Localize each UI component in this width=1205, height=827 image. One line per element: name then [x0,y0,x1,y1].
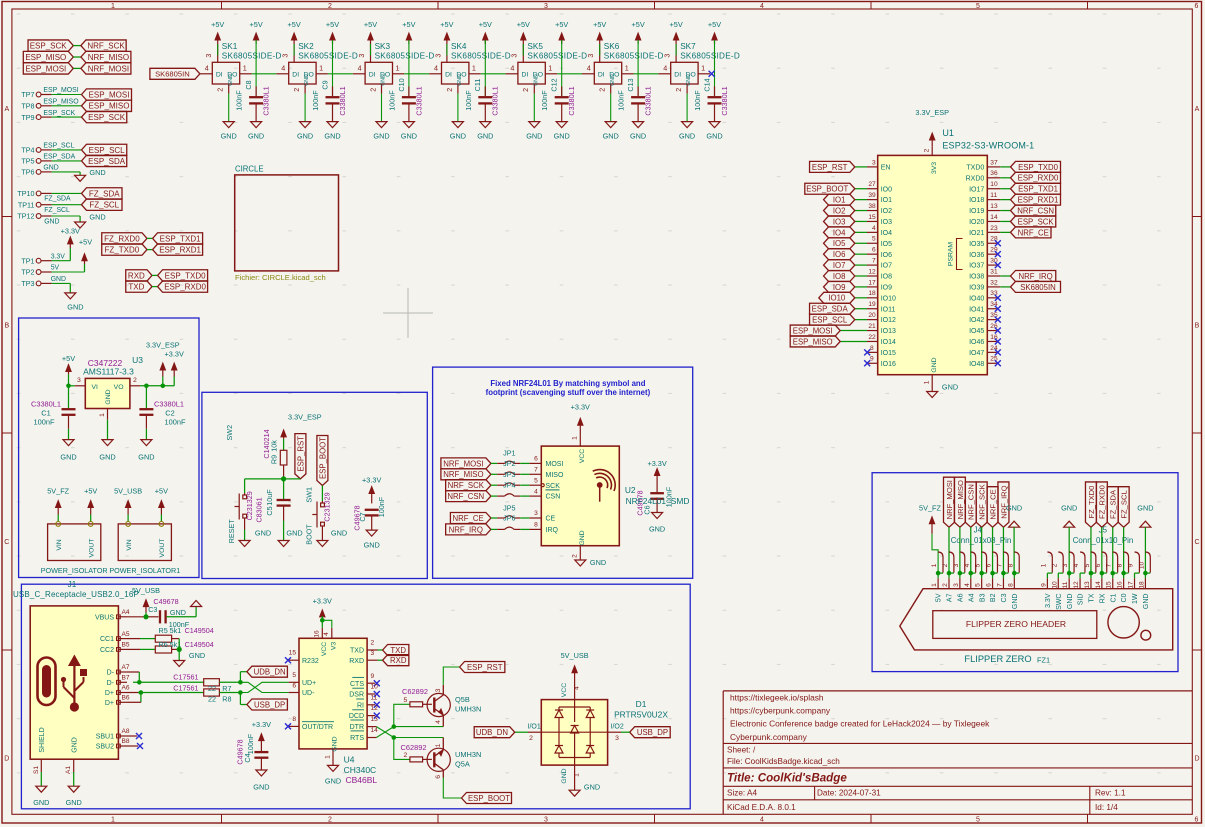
jumper on MOSI line [491,462,497,464]
svg-text:2: 2 [924,148,931,152]
svg-text:VBUS: VBUS [95,614,114,621]
svg-text:NRF_MISO: NRF_MISO [88,53,129,62]
global label FZ_TXD0 [102,244,147,255]
power 3.3V_ESP at U3 [162,367,164,377]
crossover DTR RTS [376,727,393,738]
svg-text:C3380L1: C3380L1 [720,86,729,115]
svg-text:CIRCLE: CIRCLE [235,164,264,173]
svg-text:4: 4 [534,488,538,495]
svg-text:GND: GND [297,132,313,141]
svg-text:GND: GND [89,168,105,177]
svg-text:9: 9 [1128,563,1135,567]
pin 3 VI of U3 [75,385,86,387]
pin 7 IO7 of U1 [867,264,878,266]
svg-text:A7: A7 [122,664,130,671]
global label IO6 [824,249,855,260]
svg-text:IO48: IO48 [969,361,984,368]
svg-text:IO4: IO4 [881,230,892,237]
pin VIN of POWER_ISOLATOR [57,515,59,522]
svg-text:I/O1: I/O1 [528,724,541,731]
pin 19 IO11 of U1 [867,308,878,310]
svg-text:14: 14 [371,727,379,734]
no-connect IO40 [995,295,1001,301]
ground below U4 [328,765,339,771]
svg-text:3: 3 [953,583,960,587]
svg-text:3.3V_ESP: 3.3V_ESP [288,413,322,422]
svg-text:2: 2 [371,640,375,647]
svg-text:39: 39 [868,192,876,199]
wire NRF_MOSI to J4 pin 2 [948,527,950,571]
svg-text:IO17: IO17 [969,186,984,193]
wire SK5 DO to SK6 DI [557,73,582,75]
wire GND to J5 pin 10 [1144,527,1146,571]
svg-text:IO2: IO2 [833,206,846,215]
svg-text:NRF_SCK: NRF_SCK [87,42,125,51]
GND below SK6 [610,94,612,122]
global label ESP_MISO [82,100,132,111]
branch to USB_DP label [239,693,241,705]
svg-text:22: 22 [868,334,876,341]
wire +5V to C11 [484,40,486,96]
svg-text:ESP_SDA: ESP_SDA [812,305,849,314]
svg-text:3: 3 [544,816,548,823]
svg-text:Date: 2024-07-31: Date: 2024-07-31 [817,789,881,798]
pin 8 of J5 [1124,552,1129,573]
svg-text:9: 9 [371,673,375,680]
pin 18 IO10 of U1 [867,297,878,299]
svg-text:4: 4 [587,64,591,73]
wire IO2 to IO2 [855,210,867,212]
svg-text:JP6: JP6 [503,514,515,523]
no-connect IO15 [864,349,870,355]
capacitor C5 10uF [283,479,285,499]
GND below SK5 [533,94,535,122]
wire FZ_TXD0 to J5 pin 5 [1090,527,1092,571]
svg-text:4: 4 [510,64,514,73]
svg-text:38: 38 [868,203,876,210]
svg-text:IO38: IO38 [969,274,984,281]
pin 3 of FZ1 [959,573,961,578]
module POWER_ISOLATOR1 [118,524,171,561]
wire FZ_TXD0 to ESP_RXD1 [147,249,153,251]
svg-text:+3.3V: +3.3V [362,476,381,485]
pin 6 of FZ1 [992,573,994,578]
svg-text:C13: C13 [626,78,635,91]
wire IO4 to IO4 [855,231,867,233]
svg-text:4: 4 [964,563,971,567]
svg-text:ESP_MISO: ESP_MISO [793,337,833,346]
global label ESP_TXD1 [1011,183,1061,194]
svg-text:5V: 5V [936,593,943,602]
svg-text:B3: B3 [979,593,986,602]
pin 9 of FZ1 [1046,573,1048,578]
svg-text:UMH3N: UMH3N [455,750,481,759]
svg-text:R8: R8 [222,695,231,704]
svg-text:SK4: SK4 [451,42,467,51]
global label IO1 [824,194,855,205]
svg-text:13: 13 [990,203,998,210]
svg-text:ESP_MISO: ESP_MISO [43,99,79,106]
svg-text:FZ_RXD0: FZ_RXD0 [1098,485,1107,519]
global label ESP_SDA [810,303,855,314]
pin 13 IO19 of U1 [987,210,1000,212]
svg-text:+5V: +5V [211,20,224,29]
resistor R6 5k1 [127,648,140,650]
svg-text:1: 1 [548,64,552,73]
wire D+ to R8 [141,692,204,694]
svg-text:21: 21 [868,323,876,330]
svg-text:D: D [4,756,9,763]
svg-text:2: 2 [598,88,607,92]
pin 8 IO15 of U1 [868,351,878,353]
global label NRF_MISO at J4 [954,477,965,527]
svg-text:Rev: 1.1: Rev: 1.1 [1095,789,1126,798]
svg-text:GND: GND [304,74,310,86]
svg-text:8: 8 [870,345,874,352]
svg-text:17: 17 [868,279,876,286]
wire R7 to crossover [219,681,240,683]
svg-text:VI: VI [92,384,99,391]
wire TXD0 to ESP_TXD0 [1000,166,1010,168]
global label ESP_BOOT [805,183,855,194]
wire TXD to ESP_RXD0 [152,286,158,288]
svg-text:GND: GND [228,74,234,86]
svg-text:19: 19 [868,301,876,308]
svg-text:100nF: 100nF [165,417,186,426]
+5V power for SK6 [599,37,601,56]
pin 25 IO48 of U1 [987,362,997,364]
svg-text:J5: J5 [1099,526,1108,535]
wire FZ_RXD0 to ESP_TXD1 [147,237,153,239]
wire FZ_RXD0 to J5 pin 6 [1101,527,1103,571]
svg-text:2: 2 [521,88,530,92]
pin 3 CE of U2 [529,517,541,519]
power +5V at U3 [68,369,70,375]
pin 1 VCC of U2 [579,440,581,446]
svg-text:SK6805IN: SK6805IN [155,70,190,79]
svg-text:R5 5k1: R5 5k1 [159,626,182,635]
svg-text:4: 4 [872,225,876,232]
svg-text:1: 1 [1040,563,1047,567]
pin 3 of J4 [960,552,965,573]
svg-text:A6: A6 [957,593,964,602]
svg-text:C149504: C149504 [185,626,214,635]
svg-text:D1: D1 [636,699,647,709]
pin 4 of FZ1 [970,573,972,578]
diodes inside D1 [574,700,576,722]
global label RXD [126,270,152,281]
no-connect IO45 [995,328,1001,334]
svg-text:GND: GND [401,132,417,141]
wire UDB_DN to D1 [515,731,528,733]
svg-text:TXD0: TXD0 [966,165,984,172]
svg-text:CC2: CC2 [100,647,114,654]
svg-text:3: 3 [435,688,442,692]
svg-text:7: 7 [996,583,1003,587]
svg-text:3: 3 [77,377,81,384]
svg-text:2: 2 [1051,563,1058,567]
svg-text:GND: GND [477,132,493,141]
svg-text:FZ_TXD0: FZ_TXD0 [105,246,140,255]
svg-text:CH340C: CH340C [344,765,377,775]
wire R8 to crossover [219,692,240,694]
pin 3 I/O2 of D1 [608,731,621,733]
global label IO9 [824,281,855,292]
svg-text:R7: R7 [222,684,231,693]
pin 20 IO12 of U1 [867,319,878,321]
no-connect IO37 [995,262,1001,268]
svg-text:3: 3 [586,54,595,58]
pin VOUT of POWER_ISOLATOR1 [160,515,162,522]
svg-text:ESP_RXD0: ESP_RXD0 [164,283,206,292]
svg-text:IO20: IO20 [969,219,984,226]
flipper section box [872,473,1178,672]
svg-text:IO10: IO10 [881,295,896,302]
svg-text:FZ_SCL: FZ_SCL [89,201,119,210]
svg-text:7: 7 [872,257,876,264]
capacitor C12 100nF [561,86,563,96]
pin 12 IO8 of U1 [867,275,878,277]
wire ESP_BOOT to IO0 [855,188,867,190]
svg-text:TP2: TP2 [21,268,34,277]
wire 5V_FZ to J4 pin 1 [932,534,938,571]
svg-text:DTR: DTR [350,724,364,731]
pin B7 D- of J1 [118,681,127,683]
svg-text:13: 13 [1084,581,1091,589]
svg-text:11: 11 [371,694,378,701]
pin 2 of J5 [1058,552,1063,573]
GND below SK1 [228,94,230,122]
+5V power for SK7 [675,37,677,56]
no-connect IO46 [995,338,1001,344]
resistor R8 22 [204,689,220,696]
svg-text:+3.3V: +3.3V [571,403,590,412]
svg-text:ESP_BOOT: ESP_BOOT [468,794,510,803]
pin 1 GND of U1 [931,375,933,392]
pin 1 of J5 [1047,552,1052,573]
svg-text:Fixed NRF24L01 By matching sym: Fixed NRF24L01 By matching symbol and [490,379,645,388]
pin 18 of FZ1 [1144,573,1146,578]
svg-text:13: 13 [371,716,379,723]
svg-text:C3: C3 [1001,593,1008,602]
svg-text:GND: GND [331,529,347,538]
svg-text:C3380L1: C3380L1 [154,400,184,409]
svg-text:Id: 1/4: Id: 1/4 [1095,803,1118,812]
no-connect IO47 [995,349,1001,355]
global label NRF_SCK [81,40,126,51]
svg-text:+5V: +5V [326,20,339,29]
wire TP1 to +3.3V [69,248,71,261]
svg-text:GND: GND [60,453,76,462]
pin 9 of J5 [1135,552,1140,573]
svg-text:IO11: IO11 [881,306,896,313]
svg-text:ESP_SCK: ESP_SCK [43,110,75,117]
wire RTS to Q5B emitter [394,726,444,728]
svg-text:10uF: 10uF [265,489,274,506]
svg-text:C3: C3 [148,605,157,614]
svg-text:3: 3 [510,54,519,58]
ground below C1 [63,440,74,446]
wire +5V to VI [68,374,70,385]
capacitor C2 100nF [145,386,147,409]
pin A8 SBU1 of J1 [118,735,127,737]
svg-text:GND: GND [286,529,302,538]
svg-text:USB_DP: USB_DP [637,728,668,737]
svg-text:C149504: C149504 [185,640,214,649]
+5V power for C9 [332,37,334,44]
+5V power for SK1 [217,37,219,56]
pin 7 of FZ1 [1002,573,1004,578]
wire GND to J5 pin 3 [1068,527,1070,571]
global label USB_DP at D1 [630,727,671,738]
global label NRF_CSN at J4 [965,482,976,527]
wire RXD to ESP_TXD0 [152,274,158,276]
pin VOUT of POWER_ISOLATOR [90,515,92,522]
svg-text:B7: B7 [122,675,130,682]
wire SW2 to GND [244,518,246,530]
svg-text:DI: DI [674,71,681,78]
wire NRF_SCK to J4 pin 5 [981,527,983,571]
svg-text:PSRAM: PSRAM [948,242,955,267]
svg-text:5: 5 [976,816,980,823]
svg-text:C7: C7 [358,512,367,521]
svg-text:4: 4 [323,632,330,636]
svg-text:IO1: IO1 [881,197,892,204]
svg-text:GND: GND [66,798,82,807]
wire Q5B collector to ESP_RST [443,667,459,685]
svg-text:2: 2 [216,88,225,92]
wire IO21 to NRF_CE [1000,231,1010,233]
pin 16 IO46 of U1 [987,340,997,342]
svg-text:6: 6 [1195,3,1199,10]
+5V power for C14 [714,37,716,44]
LED SK7 SK6805SIDE-D [671,62,698,84]
ground at TP12 [75,222,86,228]
svg-text:D-: D- [107,680,115,687]
svg-text:GND: GND [324,132,340,141]
svg-text:Electronic Conference badge cr: Electronic Conference badge created for … [730,719,990,729]
svg-text:Title: CoolKid'sBadge: Title: CoolKid'sBadge [727,771,847,784]
pin 10 of FZ1 [1057,573,1059,578]
pin 30 IO37 of U1 [987,264,997,266]
flipper big circle [1108,607,1139,638]
svg-text:A8: A8 [122,728,130,735]
global label FZ_SCL [82,199,123,210]
svg-text:SK5: SK5 [527,42,543,51]
pin 28 IO35 of U1 [987,242,997,244]
svg-text:C3380L1: C3380L1 [262,86,271,115]
svg-text:+5V: +5V [155,487,168,496]
svg-text:MISO: MISO [546,472,564,479]
svg-text:SK2: SK2 [298,42,314,51]
pin 17 IO9 of U1 [867,286,878,288]
pin 36 RXD0 of U1 [987,177,1000,179]
pin 2 GND of U2 [579,546,581,560]
svg-text:11: 11 [1062,581,1069,588]
svg-text:B5: B5 [122,642,130,649]
svg-text:GND: GND [561,768,568,783]
svg-text:U2: U2 [625,485,636,495]
svg-text:5: 5 [1084,563,1091,567]
global label ESP_BOOT vertical [317,436,328,486]
svg-text:ESP_RST: ESP_RST [296,436,305,472]
svg-text:TP12: TP12 [17,212,34,221]
svg-text:SK3: SK3 [375,42,391,51]
svg-text:SK6805SIDE-D: SK6805SIDE-D [298,51,358,60]
pin 7 MISO of U2 [529,473,541,475]
global label ESP_SCK [82,111,127,122]
svg-text:File: CoolKidsBadge.kicad_sch: File: CoolKidsBadge.kicad_sch [727,757,840,766]
pin 14 RTS of U4 [367,737,376,739]
svg-text:USB_DP: USB_DP [254,700,285,709]
wire +5V to C13 [637,40,639,96]
pin 8 of FZ1 [1013,573,1015,578]
svg-text:C231329: C231329 [245,491,254,520]
svg-text:8: 8 [1007,583,1014,587]
GND below SK4 [457,94,459,122]
svg-text:IO47: IO47 [969,350,984,357]
wire FZ_SDA to J5 pin 7 [1112,527,1114,571]
wire +5V to C10 [408,40,410,96]
svg-text:JP2: JP2 [503,459,515,468]
global label FZ_SDA [82,188,123,199]
global label IO2 [824,205,855,216]
svg-text:GND: GND [554,132,570,141]
svg-text:9: 9 [870,356,874,363]
svg-text:Cyberpunk.company: Cyberpunk.company [730,732,808,742]
svg-text:5: 5 [975,583,982,587]
svg-text:10k: 10k [270,440,279,452]
global label IO3 [824,216,855,227]
svg-text:ESP_MOSI: ESP_MOSI [89,90,130,99]
svg-text:ESP_TXD0: ESP_TXD0 [165,271,206,280]
wire RTS node to Q5A base resistor [394,738,410,760]
power 3.3V_ESP at U1 [931,137,933,146]
global label FZ_SDA at J5 [1107,487,1118,528]
pin VIN of POWER_ISOLATOR1 [127,515,129,522]
svg-text:GND: GND [51,276,66,283]
wire CC node to GND [178,639,180,661]
svg-text:GND: GND [942,382,958,391]
svg-text:NRF_MOSI: NRF_MOSI [88,64,129,73]
global label SK6805IN [150,68,200,79]
svg-text:ESP_RXD0: ESP_RXD0 [1018,174,1059,183]
svg-text:6: 6 [986,583,993,587]
svg-text:3.3V_ESP: 3.3V_ESP [146,340,180,349]
svg-text:RX: RX [1099,593,1106,603]
svg-text:ESP_MOSI: ESP_MOSI [25,64,66,73]
LED SK5 SK6805SIDE-D [518,62,545,84]
svg-text:C1: C1 [1110,593,1117,602]
svg-text:7: 7 [1106,563,1113,567]
pin 32 IO39 of U1 [987,286,1000,288]
svg-text:GND: GND [325,777,341,786]
wire SW1 to GND [321,526,323,541]
svg-text:ESP_MOSI: ESP_MOSI [793,326,833,335]
wire IO9 to IO9 [855,286,867,288]
svg-text:NRF_CE: NRF_CE [1018,228,1049,237]
GND below SK3 [381,94,383,122]
svg-text:ESP_SDA: ESP_SDA [88,157,126,166]
svg-text:TXD: TXD [390,646,406,655]
svg-text:DI: DI [216,71,223,78]
pin 33 IO40 of U1 [987,297,997,299]
capacitor C6 100nF [650,492,664,494]
svg-text:IO6: IO6 [881,252,892,259]
svg-text:JP5: JP5 [503,503,515,512]
svg-text:GND: GND [584,783,600,792]
wire D- A7-B7 [127,671,139,673]
